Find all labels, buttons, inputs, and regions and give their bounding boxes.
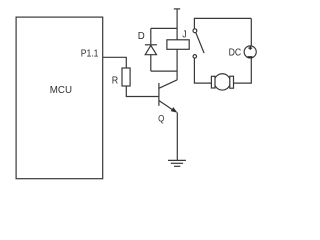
- svg-text:DC: DC: [229, 48, 242, 59]
- wire motor to DC source -: [234, 58, 252, 83]
- label Q: [158, 113, 164, 123]
- motor M: [211, 74, 233, 90]
- resistor R: [122, 68, 130, 86]
- wire diode D bottom to rail: [151, 70, 177, 72]
- wire relay coil bottom to Q collector: [176, 49, 178, 79]
- diode D: [145, 28, 157, 71]
- svg-text:Q: Q: [158, 113, 164, 123]
- wire DC source + down from top rail: [250, 18, 252, 46]
- svg-text:MCU: MCU: [50, 85, 72, 96]
- MCU block: [16, 17, 103, 179]
- svg-text:P1.1: P1.1: [81, 49, 99, 60]
- dc source DC: [244, 46, 256, 58]
- svg-text:R: R: [112, 75, 118, 86]
- wire diode D top to rail: [151, 27, 177, 29]
- ground: [168, 160, 186, 166]
- label DC: [229, 48, 242, 59]
- transistor Q: [159, 80, 178, 113]
- label R: [112, 75, 118, 86]
- wire Q emitter to ground: [176, 112, 178, 160]
- label D: [138, 31, 145, 42]
- wire switch top to DC source +: [194, 18, 251, 28]
- wire switch bottom to motor: [194, 58, 211, 83]
- pin label P1.1: [81, 49, 99, 60]
- wire +V to relay coil top: [176, 9, 178, 40]
- wire P1.1 pin to resistor R: [103, 57, 127, 68]
- svg-text:J: J: [182, 30, 186, 41]
- relay coil J: [167, 40, 189, 50]
- label J: [182, 30, 186, 41]
- label MCU: [50, 85, 72, 96]
- power supply symbol (T bar): [174, 8, 180, 10]
- wire resistor R to Q base: [126, 86, 159, 97]
- relay contact switch: [193, 29, 204, 58]
- svg-text:D: D: [138, 31, 145, 42]
